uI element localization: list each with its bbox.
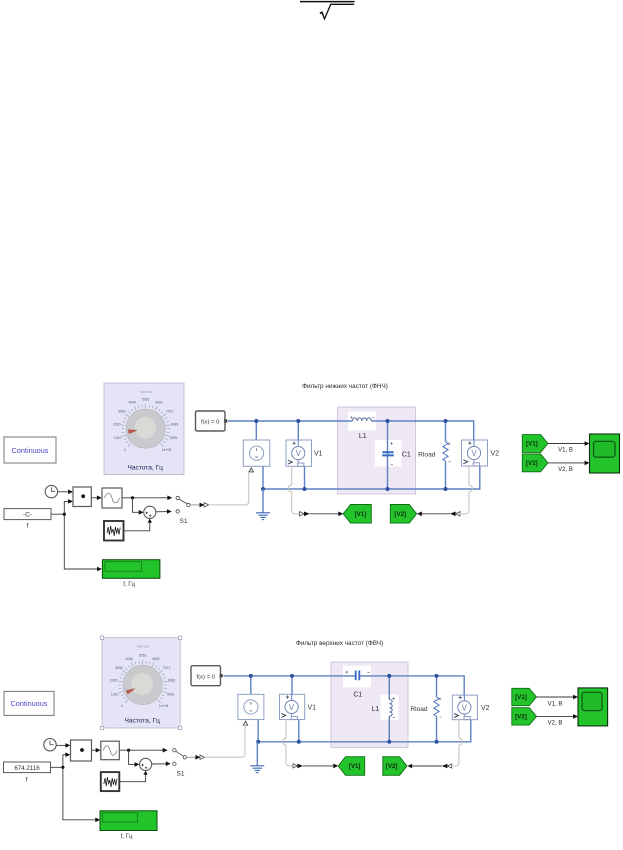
product block 2 bbox=[71, 740, 92, 761]
svg-text:6061: 6061 bbox=[152, 657, 160, 661]
svg-text:1010: 1010 bbox=[111, 692, 119, 696]
wire: from [V2] to scope (V2, B) bbox=[548, 461, 590, 473]
svg-text:V1: V1 bbox=[308, 704, 317, 711]
svg-text:S1: S1 bbox=[177, 771, 185, 778]
formula fraction bar bbox=[300, 1, 355, 3]
svg-text:1e+04: 1e+04 bbox=[159, 704, 169, 708]
capacitor C1 (diagram 2) bbox=[345, 671, 369, 699]
clock block 1 bbox=[45, 485, 57, 497]
svg-text:2020: 2020 bbox=[113, 422, 121, 426]
svg-text:V2, B: V2, B bbox=[548, 721, 563, 727]
manual switch S1 (diagram 1) bbox=[176, 496, 190, 525]
svg-text:Частота: Частота bbox=[137, 645, 149, 649]
svg-text:Фильтр верхних частот (ФВЧ): Фильтр верхних частот (ФВЧ) bbox=[296, 640, 383, 647]
electrical reference (ground) 2 bbox=[250, 742, 264, 773]
wire: clock to product 1 bbox=[58, 490, 73, 495]
from tag from [V2] diagram 2 bbox=[512, 708, 537, 725]
svg-text:3030: 3030 bbox=[118, 410, 126, 414]
display block f, Гц (diagram 1) bbox=[102, 560, 159, 588]
svg-text:f: f bbox=[27, 523, 29, 530]
svg-text:1e+04: 1e+04 bbox=[162, 448, 172, 452]
wire: converter to goto V1 (diagram 2) bbox=[303, 764, 338, 769]
white patch under C1 (2) bbox=[343, 666, 371, 688]
svg-text:[V2]: [V2] bbox=[526, 460, 538, 467]
svg-text:0: 0 bbox=[124, 448, 126, 452]
svg-text:V1: V1 bbox=[314, 451, 323, 458]
wire: junction to sum 1 bbox=[133, 498, 144, 515]
svg-text:[V1]: [V1] bbox=[515, 694, 527, 701]
svg-text:[V2]: [V2] bbox=[394, 511, 406, 518]
svg-text:[V2]: [V2] bbox=[515, 714, 527, 721]
from tag from [V2] diagram 1 bbox=[522, 454, 548, 472]
constant block f = 674.2116 (diagram 2) bbox=[4, 762, 51, 784]
wire: V1 bottom drop bbox=[304, 466, 306, 489]
wire: from [V1] to scope (V1, B) bbox=[548, 441, 590, 453]
wire: V1 top drop 2 bbox=[291, 676, 293, 694]
svg-text:Частота, Гц: Частота, Гц bbox=[127, 464, 163, 471]
svg-text:Continuous: Continuous bbox=[11, 699, 48, 708]
voltmeter V1 (diagram 1) bbox=[286, 440, 323, 466]
svg-text:L1: L1 bbox=[372, 706, 380, 713]
filter area annotation box 1 bbox=[338, 407, 416, 494]
PS-Simulink converter (V1 side, diagram 1) bbox=[300, 512, 310, 517]
node junctions top bus 2 bbox=[249, 674, 439, 678]
wire: C1 branch bbox=[387, 421, 389, 489]
wire: from [V1] to scope 2 (V1, B) bbox=[537, 695, 579, 708]
wire: product to sine 1 bbox=[91, 496, 102, 501]
resistor Rload (diagram 2) bbox=[410, 697, 441, 717]
wire: constant to junction and branches (diagram 1) bbox=[51, 499, 102, 571]
svg-text:Rload: Rload bbox=[410, 706, 428, 713]
voltmeter V2 (diagram 2) bbox=[452, 695, 489, 720]
svg-text:V2, B: V2, B bbox=[558, 467, 573, 473]
svg-text:L1: L1 bbox=[359, 433, 367, 440]
svg-text:6061: 6061 bbox=[155, 401, 163, 405]
PS wire: V2 output to converter (diagram 2) bbox=[452, 720, 463, 766]
svg-text:f: f bbox=[26, 777, 28, 784]
inductor L1 (diagram 1) bbox=[350, 416, 374, 440]
knob dial panel 1 (Частота, Гц) bbox=[104, 383, 184, 475]
clock block 2 bbox=[44, 739, 56, 751]
Simulink-PS converter (diagram 2) bbox=[195, 755, 204, 760]
wire: V1 top drop bbox=[297, 421, 299, 440]
PS-Simulink converter (V2 side, diagram 1) bbox=[450, 512, 460, 517]
wire: sum to switch bottom input 1 bbox=[156, 509, 172, 514]
voltmeter V1 (diagram 2) bbox=[280, 694, 317, 719]
svg-text:V: V bbox=[289, 703, 295, 712]
AC voltage source 2 bbox=[238, 694, 264, 725]
svg-text:8081: 8081 bbox=[168, 679, 176, 683]
wire: product to sine 2 bbox=[92, 748, 101, 753]
svg-text:[V1]: [V1] bbox=[349, 763, 361, 770]
sine wave block 2 bbox=[101, 741, 120, 760]
PS wire: V1 output to converter (diagram 1) bbox=[288, 466, 299, 514]
svg-text:2020: 2020 bbox=[110, 679, 118, 683]
white patch under L1 (2) bbox=[381, 695, 399, 721]
wire: top bus node A2 bbox=[224, 676, 465, 695]
band-limited white noise block 2 bbox=[101, 772, 120, 791]
PS wire: V1 output to converter (diagram 2) bbox=[282, 720, 292, 766]
wire: L1 branch 2 bbox=[388, 676, 390, 742]
from tag from [V1] diagram 2 bbox=[512, 688, 537, 705]
scope block 2 bbox=[578, 688, 608, 726]
svg-text:5051: 5051 bbox=[139, 654, 147, 658]
svg-text:0: 0 bbox=[121, 704, 123, 708]
from tag [V2] diagram 1 bbox=[390, 505, 416, 524]
svg-text:f, Гц: f, Гц bbox=[121, 834, 133, 840]
svg-text:f(x) = 0: f(x) = 0 bbox=[201, 420, 220, 426]
PS wire: converter to source input (diagram 2) bbox=[205, 725, 245, 758]
wire: clock to product 2 bbox=[56, 743, 70, 748]
knob dial panel 2 (Частота, Гц) bbox=[100, 636, 182, 730]
sum block 1 bbox=[144, 506, 156, 518]
svg-text:1010: 1010 bbox=[114, 436, 122, 440]
wire: source top drop bbox=[255, 421, 257, 440]
constant block f = -C- (diagram 1) bbox=[4, 509, 51, 530]
svg-text:Частота, Гц: Частота, Гц bbox=[124, 718, 160, 725]
band-limited white noise block 1 bbox=[104, 521, 124, 541]
wire: noise to sum 1 bbox=[124, 519, 152, 531]
svg-text:V1, B: V1, B bbox=[558, 448, 573, 454]
svg-text:[V2]: [V2] bbox=[386, 763, 398, 770]
scope block 1 bbox=[590, 434, 620, 473]
solver configuration block 2 bbox=[191, 666, 223, 686]
wire: switch to S-PS converter 2 bbox=[187, 756, 196, 758]
svg-text:-C-: -C- bbox=[23, 512, 32, 519]
node junctions bottom bus 2 bbox=[256, 740, 438, 744]
PS wire: V2 output to converter (diagram 1) bbox=[460, 466, 472, 514]
wire: bottom bus node B2 bbox=[258, 720, 471, 742]
node junctions top bus 1 bbox=[254, 419, 447, 423]
svg-text:V2: V2 bbox=[491, 450, 500, 457]
node junctions bottom bus 1 bbox=[261, 487, 448, 491]
wire: junction to sum 2 bbox=[129, 750, 140, 767]
wire: sine to switch top input 2 bbox=[119, 748, 167, 753]
wire: converter to goto V1 (diagram 1) bbox=[310, 512, 344, 517]
svg-text:[V1]: [V1] bbox=[526, 441, 538, 448]
display block f, Гц (diagram 2) bbox=[100, 811, 157, 840]
svg-text:[V1]: [V1] bbox=[355, 511, 367, 518]
wire: Rload branch 2 bbox=[436, 676, 438, 742]
wire: switch to S-PS converter 1 bbox=[190, 504, 199, 506]
svg-text:674.2116: 674.2116 bbox=[14, 765, 40, 772]
svg-text:S1: S1 bbox=[180, 518, 188, 525]
wire: Rload branch bbox=[445, 421, 447, 489]
AC voltage source 1 bbox=[243, 440, 269, 472]
white patch under C1 bbox=[375, 440, 402, 467]
svg-text:3030: 3030 bbox=[115, 666, 123, 670]
goto tag [V1] diagram 2 bbox=[338, 757, 365, 776]
from tag from [V1] diagram 1 bbox=[522, 435, 548, 453]
sine wave block 1 bbox=[102, 488, 122, 508]
formula square root radical bbox=[320, 4, 354, 19]
product block 1 bbox=[73, 487, 91, 507]
svg-text:9091: 9091 bbox=[170, 436, 178, 440]
annotation block block 2 (Continuous) bbox=[4, 691, 54, 715]
svg-text:V2: V2 bbox=[481, 705, 490, 712]
manual switch S1 (diagram 2) bbox=[173, 749, 187, 778]
filter area annotation box 2 bbox=[331, 662, 408, 748]
white patch under L1 bbox=[348, 412, 376, 431]
svg-text:f, Гц: f, Гц bbox=[123, 582, 135, 588]
svg-text:V: V bbox=[471, 449, 477, 458]
svg-text:7071: 7071 bbox=[163, 666, 171, 670]
svg-text:Continuous: Continuous bbox=[12, 446, 49, 455]
voltmeter V2 (diagram 1) bbox=[462, 440, 500, 466]
resistor Rload (diagram 1) bbox=[418, 442, 451, 462]
wire: constant to junction and branches (diagram 2) bbox=[51, 752, 101, 822]
wire: sum to switch bottom input 2 bbox=[152, 761, 171, 766]
Simulink-PS converter (diagram 1) bbox=[200, 503, 209, 508]
wire: noise to sum 2 bbox=[119, 771, 147, 782]
svg-text:7071: 7071 bbox=[166, 410, 174, 414]
inductor L1 (diagram 2) bbox=[372, 697, 396, 717]
svg-text:9091: 9091 bbox=[167, 692, 175, 696]
wire: source top drop 2 bbox=[250, 676, 252, 694]
svg-text:Частота: Частота bbox=[140, 390, 152, 394]
wire: V2 converter to goto V2 (diagram 1) bbox=[417, 512, 450, 517]
sum block 2 bbox=[140, 758, 152, 770]
svg-text:8081: 8081 bbox=[171, 422, 179, 426]
wire: bottom bus node B1 (ground rail) bbox=[263, 466, 480, 489]
wire: V1 bottom drop 2 bbox=[298, 720, 300, 742]
svg-text:f(x) = 0: f(x) = 0 bbox=[196, 674, 215, 680]
solver configuration block 1 bbox=[196, 411, 228, 431]
electrical reference (ground) 1 bbox=[256, 489, 270, 520]
PS-Simulink converter (V2 side, diagram 2) bbox=[442, 764, 452, 769]
wire: sine to switch top input 1 bbox=[122, 496, 172, 501]
svg-text:V1, B: V1, B bbox=[548, 701, 563, 707]
PS wire: converter to source input (diagram 1) bbox=[209, 472, 249, 505]
svg-text:C1: C1 bbox=[402, 451, 411, 458]
svg-text:V: V bbox=[296, 449, 302, 458]
wire: V2 converter to goto V2 (diagram 2) bbox=[407, 764, 442, 769]
from tag [V2] diagram 2 bbox=[383, 757, 407, 776]
svg-text:C1: C1 bbox=[353, 692, 362, 699]
svg-text:V: V bbox=[462, 703, 468, 712]
svg-text:4040: 4040 bbox=[126, 657, 134, 661]
wire: top bus node A1 (f(x)=0 output to V2 +) bbox=[228, 421, 474, 440]
svg-text:4040: 4040 bbox=[129, 401, 137, 405]
svg-text:Rload: Rload bbox=[418, 451, 436, 458]
capacitor C1 (diagram 1) bbox=[382, 442, 411, 465]
svg-text:5051: 5051 bbox=[142, 397, 150, 401]
wire: from [V2] to scope 2 (V2, B) bbox=[537, 714, 579, 726]
annotation block block 1 (Continuous) bbox=[4, 437, 56, 463]
svg-text:Фильтр нижних частот (ФНЧ): Фильтр нижних частот (ФНЧ) bbox=[302, 383, 388, 390]
PS-Simulink converter (V1 side, diagram 2) bbox=[293, 764, 303, 769]
goto tag [V1] diagram 1 bbox=[343, 505, 371, 524]
